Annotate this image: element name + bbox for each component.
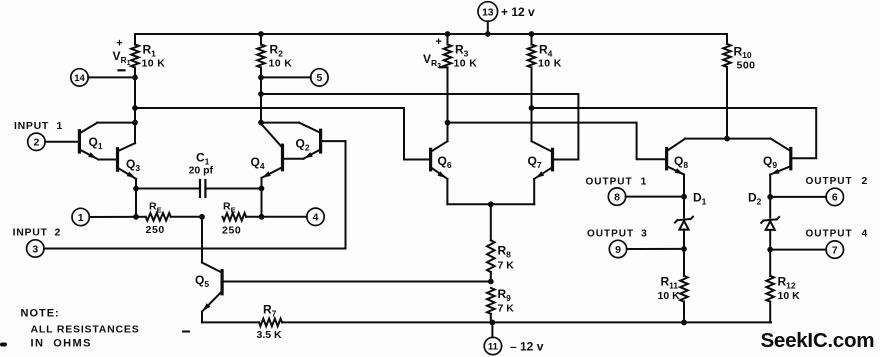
wire R2 column (258, 68, 264, 126)
svg-text:SeekIC.com: SeekIC.com (761, 329, 875, 352)
wire Q3 emitter column (133, 179, 139, 220)
svg-text:OUTPUT: OUTPUT (806, 176, 853, 187)
label Q9 (763, 154, 777, 170)
wire Q8/Q9 collector bus (685, 138, 771, 140)
transistor Q3 (118, 143, 137, 179)
wire left col to C1 (136, 188, 200, 190)
svg-text:9: 9 (615, 244, 621, 256)
wire C1 to right col (205, 188, 261, 190)
svg-text:R12: R12 (778, 275, 796, 291)
svg-text:ALL RESISTANCES: ALL RESISTANCES (31, 324, 140, 336)
wire R10 column (724, 67, 730, 142)
svg-text:Q5: Q5 (195, 273, 209, 289)
label Q5 (195, 273, 209, 289)
svg-text:8: 8 (614, 191, 620, 203)
label VR3 (+, VR3, -) (423, 36, 446, 70)
svg-text:7 K: 7 K (498, 303, 515, 315)
svg-text:Q4: Q4 (251, 155, 265, 171)
svg-text:10 K: 10 K (658, 290, 681, 302)
label D1 (693, 191, 707, 207)
wire Q5 emitter down (201, 312, 203, 323)
junction R8/R9 (488, 279, 494, 285)
svg-text:2: 2 (33, 137, 39, 149)
node 8 (output 1) (608, 188, 687, 205)
svg-text:NOTE:: NOTE: (21, 308, 60, 320)
svg-text:250: 250 (222, 225, 241, 237)
transistor Q4 (261, 124, 283, 178)
svg-text:4: 4 (313, 212, 319, 224)
svg-text:2: 2 (862, 175, 868, 187)
svg-text:Q2: Q2 (296, 137, 310, 153)
node 9 (output 3) (609, 240, 687, 257)
label Q6 (438, 154, 452, 170)
svg-text:10 K: 10 K (778, 290, 801, 302)
resistor R9 7K (487, 287, 514, 322)
label D2 (748, 191, 762, 207)
svg-text:Q7: Q7 (528, 154, 542, 170)
wire Q1 collector to R1 (97, 122, 135, 124)
output 3 label (587, 227, 647, 239)
svg-text:VR3: VR3 (423, 52, 441, 70)
label Q7 (528, 154, 542, 170)
zener diode D1 (675, 197, 693, 249)
svg-text:7 K: 7 K (498, 260, 515, 272)
wire R3 column (445, 68, 451, 142)
svg-text:Q1: Q1 (89, 135, 103, 151)
wire node3 to Q2 base (345, 141, 347, 248)
transistor Q9 (770, 139, 791, 197)
resistor R7 3.5K (257, 303, 283, 342)
node 14 (71, 69, 135, 86)
wire R1 column (132, 68, 138, 144)
svg-text:INPUT: INPUT (14, 120, 49, 132)
output 4 label (806, 227, 868, 239)
node 3 (input 2) (27, 240, 346, 257)
svg-text:1: 1 (57, 120, 63, 132)
svg-text:10 K: 10 K (269, 58, 293, 70)
transistor Q7 (532, 141, 553, 179)
svg-text:– 12 v: – 12 v (510, 340, 544, 354)
label Q8 (674, 154, 688, 170)
transistor Q2 (283, 123, 346, 159)
svg-text:4: 4 (862, 227, 868, 239)
junction RE centre tap (199, 214, 205, 220)
svg-text:OUTPUT: OUTPUT (587, 228, 634, 239)
svg-text:6: 6 (832, 192, 838, 204)
svg-text:D2: D2 (748, 191, 762, 207)
svg-text:10 K: 10 K (142, 58, 166, 70)
svg-text:R7: R7 (263, 303, 277, 319)
node 7 (output 4) (767, 241, 843, 258)
node 4 (262, 208, 325, 225)
wire Q7 emitter (533, 179, 535, 204)
wire Q2 collector to R2 (261, 122, 299, 124)
svg-text:RE: RE (223, 201, 236, 215)
svg-text:Q8: Q8 (674, 154, 688, 170)
svg-text:OUTPUT: OUTPUT (586, 176, 633, 187)
transistor Q1 (79, 123, 117, 160)
svg-text:Q9: Q9 (763, 154, 777, 170)
resistor R12 10K (766, 250, 800, 323)
resistor R4 10K (528, 31, 562, 69)
artifact dash near R7 (183, 331, 189, 333)
note text (21, 308, 140, 350)
wire common emitter bus (447, 201, 534, 207)
svg-text:1: 1 (641, 175, 647, 187)
svg-text:R1: R1 (143, 43, 157, 59)
label Q3 (126, 157, 140, 173)
svg-text:+ 12 v: + 12 v (501, 5, 535, 19)
svg-text:7: 7 (832, 244, 838, 256)
label VR1 (+, VR1, -) (113, 38, 131, 71)
node 11 (-12 V terminal) (484, 322, 543, 354)
resistor R3 10K (444, 31, 478, 69)
wire -12V bus left (202, 321, 259, 323)
svg-text:11: 11 (488, 341, 499, 352)
node 6 (output 2) (767, 188, 843, 205)
svg-text:250: 250 (146, 224, 165, 236)
svg-text:14: 14 (74, 73, 85, 84)
svg-text:D1: D1 (693, 191, 707, 207)
svg-text:3: 3 (641, 227, 647, 239)
output 2 label (806, 175, 868, 187)
node 2 (input 1) (28, 133, 80, 150)
svg-text:13: 13 (482, 6, 494, 18)
svg-text:3.5 K: 3.5 K (257, 329, 283, 341)
svg-text:R10: R10 (734, 44, 752, 60)
wire node R2 to Q7 base (261, 94, 578, 160)
input 1 label (14, 120, 63, 132)
svg-text:10 K: 10 K (538, 58, 562, 70)
svg-text:INPUT: INPUT (13, 226, 48, 238)
wire node R3 to Q8 base (448, 123, 667, 160)
output 1 label (586, 175, 647, 187)
svg-text:RE: RE (149, 201, 162, 215)
input 2 label (13, 226, 61, 238)
label Q4 (251, 155, 265, 171)
svg-text:Q3: Q3 (126, 157, 140, 173)
transistor Q5 (202, 271, 222, 312)
svg-text:5: 5 (316, 72, 322, 84)
svg-text:500: 500 (737, 60, 756, 72)
resistor R2 10K (257, 31, 292, 69)
svg-text:Q6: Q6 (438, 154, 452, 170)
svg-text:VR1: VR1 (113, 49, 131, 67)
node 5 (261, 69, 328, 86)
wire Q5 base to R8/R9 junction (222, 281, 491, 283)
node 13 (+12 V terminal) (478, 2, 535, 37)
svg-text:10 K: 10 K (454, 58, 478, 70)
svg-text:3: 3 (32, 243, 38, 255)
artifact mark left edge (0, 343, 7, 347)
svg-text:1: 1 (78, 212, 84, 224)
svg-text:R2: R2 (270, 43, 284, 59)
svg-text:IN OHMS: IN OHMS (31, 338, 92, 350)
svg-text:R3: R3 (455, 43, 469, 59)
svg-text:R9: R9 (498, 287, 512, 303)
label Q2 (296, 137, 310, 153)
svg-text:OUTPUT: OUTPUT (806, 228, 853, 239)
wire Q6 emitter (446, 179, 448, 204)
resistor RE right 250 (222, 201, 262, 237)
zener diode D2 (761, 197, 779, 250)
node 1 (72, 208, 136, 225)
resistor R11 10K (658, 249, 688, 323)
wire R4 column (529, 68, 535, 142)
wire node R4 to Q9 base (532, 108, 817, 158)
transistor Q8 (667, 139, 686, 197)
svg-text:R4: R4 (539, 43, 553, 59)
svg-text:+: + (116, 38, 122, 50)
label Q1 (89, 135, 103, 151)
wire Q4 emitter column (259, 178, 265, 220)
wire node R1 to Q6 base (135, 108, 431, 160)
svg-text:R11: R11 (661, 275, 679, 291)
svg-text:2: 2 (55, 226, 61, 238)
resistor R1 10K (131, 34, 165, 70)
wire RE tap to Q5 collector (202, 217, 222, 273)
resistor R10 500 (723, 34, 755, 72)
wire +12V top rail (135, 33, 727, 35)
resistor R8 7K (487, 204, 514, 281)
svg-text:R8: R8 (498, 244, 512, 260)
svg-text:+: + (435, 36, 441, 48)
SeekIC.com watermark (761, 329, 875, 352)
transistor Q6 (431, 141, 448, 179)
capacitor C1 20pf (189, 151, 214, 198)
svg-text:20 pf: 20 pf (189, 165, 214, 177)
wire -12V bus (282, 320, 771, 326)
resistor RE left 250 (136, 201, 202, 237)
